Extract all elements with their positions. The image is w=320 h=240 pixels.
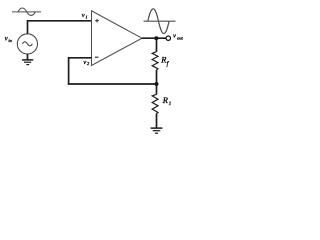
op-amp U1	[92, 11, 143, 66]
voltage source Vin	[17, 34, 37, 54]
ground (right)	[151, 128, 163, 133]
wire feedback node to R1	[156, 84, 158, 94]
wire output node to Rf	[156, 38, 158, 52]
svg-text:v: v	[173, 33, 176, 40]
wire source to + input	[28, 21, 92, 34]
wire Rf to feedback node	[156, 70, 158, 84]
svg-text:v: v	[83, 59, 86, 66]
svg-text:1: 1	[85, 14, 87, 19]
svg-text:1: 1	[169, 101, 172, 107]
op-amp - pin mark	[95, 56, 99, 58]
feedback node junction	[155, 82, 159, 86]
resistor R1	[152, 94, 158, 113]
wire R1 to ground	[156, 114, 158, 129]
input waveform icon	[12, 8, 41, 15]
resistor Rf	[152, 52, 158, 70]
svg-text:R: R	[162, 96, 168, 105]
op-amp + pin mark	[95, 19, 99, 23]
output node junction	[154, 36, 158, 40]
wire source to ground	[27, 54, 29, 60]
feedback wire to - input	[69, 58, 157, 84]
svg-text:out: out	[177, 35, 184, 40]
svg-text:v: v	[82, 12, 85, 19]
output terminal	[166, 36, 170, 40]
svg-text:R: R	[160, 55, 166, 64]
ground (left)	[22, 60, 33, 65]
output waveform icon	[144, 9, 176, 34]
output wire	[142, 37, 166, 39]
